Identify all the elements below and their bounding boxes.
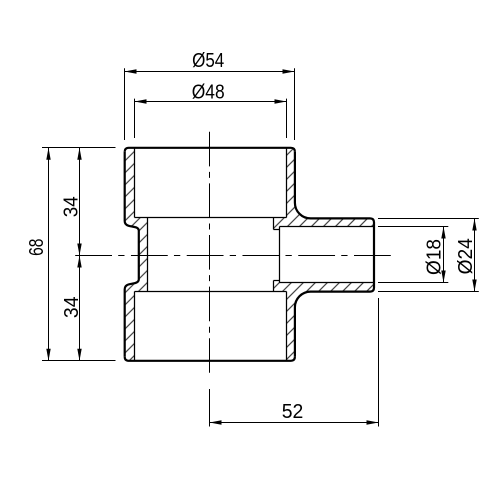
socket bore top-right — [286, 148, 288, 218]
svg-text:34: 34 — [61, 296, 83, 318]
dimension Ø54 arrows — [125, 69, 137, 73]
middle bore left wall — [147, 218, 149, 292]
hatch section right-bottom wall and branch bottom wall — [274, 281, 375, 361]
dimension 34 top arrows — [77, 148, 81, 160]
body outer profile left — [125, 152, 139, 357]
horizontal branch centerline — [75, 255, 391, 257]
dimension Ø24 line — [474, 219, 476, 292]
dimension 68/34 top extension line — [42, 147, 116, 149]
svg-text:34: 34 — [60, 196, 83, 217]
hatch section left wall — [125, 148, 148, 361]
body outer profile right with branch — [295, 152, 374, 357]
dimension 52 line — [210, 422, 379, 424]
dimension Ø24 arrows — [472, 219, 476, 231]
dimension 52 extension line left — [209, 389, 211, 427]
dimension Ø54 line — [125, 71, 295, 73]
dimension 68/34 bottom extension line — [42, 360, 116, 362]
middle bore right wall upper — [273, 218, 275, 230]
dimension 34 top line — [79, 148, 81, 256]
svg-text:52: 52 — [282, 401, 304, 423]
dimension Ø18 extension lines — [378, 226, 448, 228]
socket bore top-left — [134, 148, 136, 218]
top socket shoulder — [135, 217, 287, 219]
dimension Ø54 extension lines — [124, 68, 126, 140]
branch bore bottom — [280, 282, 375, 284]
branch socket stop face — [279, 227, 281, 283]
dimension 34 bottom line — [79, 256, 81, 361]
through-hole top ledge — [274, 229, 280, 231]
svg-text:Ø24: Ø24 — [455, 238, 477, 274]
bottom socket shoulder — [135, 291, 287, 293]
body bottom face — [125, 357, 295, 361]
dimension 52 arrows — [210, 420, 222, 424]
socket bore bottom-right — [286, 292, 288, 361]
dimension Ø18 line — [443, 227, 445, 283]
hatch section right-top wall and branch top wall — [274, 148, 375, 230]
dimension Ø48 extension lines — [134, 99, 136, 138]
dimension Ø48 arrows — [135, 99, 147, 103]
dimension 68 line — [48, 148, 50, 361]
middle bore right wall lower — [273, 281, 275, 292]
dimension Ø18 arrows — [441, 227, 445, 239]
body top face — [125, 148, 295, 152]
svg-text:Ø48: Ø48 — [192, 80, 225, 102]
socket bore bottom-left — [134, 292, 136, 361]
svg-text:Ø54: Ø54 — [192, 48, 224, 71]
svg-text:68: 68 — [25, 239, 47, 256]
branch bore top — [280, 226, 375, 228]
vertical centerline — [209, 132, 211, 373]
dimension Ø48 line — [135, 101, 287, 103]
dimension 34 bottom arrows — [77, 256, 81, 268]
svg-text:Ø18: Ø18 — [423, 239, 446, 275]
dimension Ø24 extension lines — [378, 218, 479, 220]
dimension 52 extension line right — [378, 298, 380, 427]
through-hole bottom ledge — [274, 280, 280, 282]
dimension 68 arrows — [46, 148, 50, 160]
